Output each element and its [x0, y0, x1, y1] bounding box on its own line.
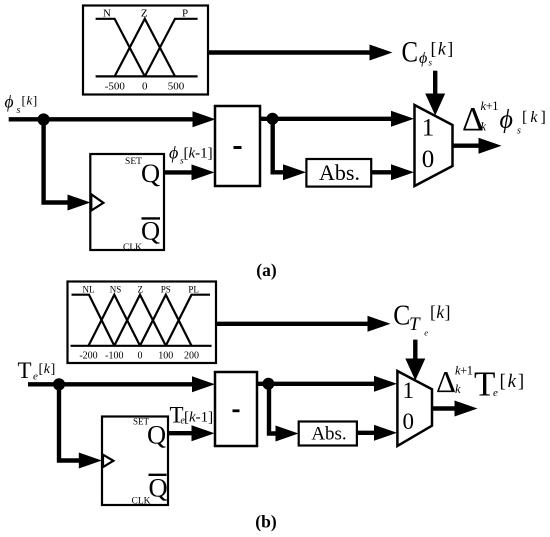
svg-text:NL: NL [83, 285, 95, 295]
svg-text:Z: Z [141, 8, 148, 20]
svg-text:200: 200 [184, 351, 199, 362]
svg-text:[k]: [k] [39, 362, 56, 377]
svg-text:C: C [402, 36, 419, 69]
svg-text:Abs.: Abs. [311, 424, 346, 445]
svg-text:[k]: [k] [22, 92, 38, 107]
svg-text:(b): (b) [255, 512, 277, 532]
svg-text:k: k [455, 382, 461, 396]
svg-text:e: e [424, 328, 428, 338]
svg-text:s: s [429, 58, 433, 68]
svg-text:[k-1]: [k-1] [184, 409, 213, 425]
svg-text:T: T [409, 314, 421, 335]
svg-text:e: e [33, 371, 38, 383]
svg-text:SET: SET [125, 157, 142, 167]
svg-text:[k-1]: [k-1] [184, 146, 213, 162]
svg-text:CLK: CLK [132, 497, 151, 507]
svg-text:N: N [103, 8, 111, 20]
svg-text:1: 1 [403, 378, 415, 403]
svg-text:ϕ: ϕ [5, 92, 14, 112]
svg-text:ϕ: ϕ [500, 105, 513, 134]
svg-text:s: s [517, 126, 521, 137]
svg-text:ϕ: ϕ [169, 143, 178, 163]
svg-text:500: 500 [168, 81, 185, 93]
svg-text:Q: Q [141, 216, 160, 246]
svg-text:Abs.: Abs. [319, 160, 360, 185]
svg-text:-200: -200 [79, 351, 97, 362]
svg-text:k+1: k+1 [455, 364, 473, 378]
svg-text:PS: PS [161, 285, 171, 295]
svg-text:k+1: k+1 [481, 99, 499, 113]
svg-text:k: k [481, 120, 487, 134]
svg-text:[k]: [k] [431, 39, 455, 59]
svg-text:s: s [17, 105, 21, 116]
svg-text:0: 0 [422, 146, 435, 173]
svg-text:Δ: Δ [436, 364, 456, 399]
svg-text:1: 1 [422, 114, 435, 141]
svg-text:P: P [182, 8, 188, 20]
svg-text:ϕ: ϕ [419, 50, 427, 67]
svg-text:0: 0 [142, 81, 148, 93]
svg-text:[k]: [k] [500, 371, 527, 392]
svg-text:[k]: [k] [430, 302, 451, 322]
svg-text:Q: Q [141, 158, 160, 188]
svg-text:Q: Q [147, 420, 166, 450]
svg-text:NS: NS [110, 285, 122, 295]
svg-text:T: T [18, 358, 32, 383]
svg-text:0: 0 [138, 351, 143, 362]
svg-text:e: e [493, 387, 498, 399]
svg-text:Z: Z [137, 285, 143, 295]
svg-text:PL: PL [188, 285, 199, 295]
svg-text:-500: -500 [105, 81, 126, 93]
svg-text:0: 0 [403, 409, 415, 434]
svg-text:(a): (a) [256, 260, 277, 280]
svg-text:-100: -100 [105, 351, 123, 362]
svg-text:100: 100 [158, 351, 173, 362]
svg-text:CLK: CLK [123, 243, 142, 253]
svg-text:Q: Q [149, 473, 168, 503]
svg-text:[k]: [k] [522, 109, 549, 126]
svg-text:C: C [393, 300, 410, 332]
